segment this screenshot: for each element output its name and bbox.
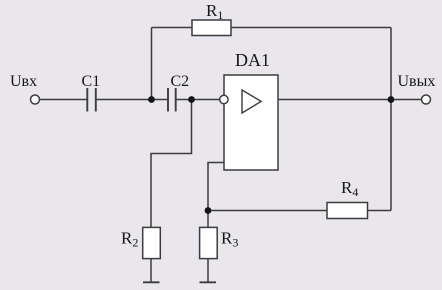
ground (R3) (200, 281, 217, 283)
svg-text:Uвых: Uвых (398, 73, 436, 90)
node junction after C2 (188, 96, 195, 103)
wire R4 horizontal run (208, 210, 327, 212)
ground (R2) (143, 281, 160, 283)
capacitor C1 (87, 88, 96, 112)
svg-text:Uвх: Uвх (10, 73, 37, 90)
resistor R3 (200, 227, 218, 258)
wire C1 to C2 (97, 99, 168, 101)
wire right rail vertical (390, 28, 392, 211)
wire op-amp lower pin (208, 163, 224, 229)
svg-text:C1: C1 (82, 73, 101, 90)
wire C2 to op-amp input (177, 99, 220, 101)
input terminal circle (31, 95, 40, 104)
wire R3 to ground (207, 259, 209, 282)
resistor R1 (192, 20, 231, 36)
resistor R4 (327, 203, 368, 219)
node junction R3/R4 (205, 207, 212, 214)
wire top left to R1 (152, 27, 193, 29)
op-amp input circle (220, 95, 228, 103)
wire junction down from C2 node (151, 100, 192, 229)
wire R4 to right rail (368, 210, 392, 212)
wire R1 to right rail (231, 27, 391, 29)
wire input to C1 (40, 99, 87, 101)
op-amp DA1 body (224, 75, 278, 170)
capacitor C2 (168, 88, 176, 112)
svg-text:DA1: DA1 (235, 50, 270, 70)
node output junction (388, 96, 395, 103)
svg-text:C2: C2 (171, 73, 190, 90)
wire feedback left vertical (151, 28, 153, 100)
wire R2 to ground (150, 259, 152, 282)
op-amp DA1 triangle (242, 90, 261, 113)
resistor R2 (143, 227, 161, 258)
node junction after C1 wire (feedback tap) (148, 96, 155, 103)
output terminal circle (422, 95, 431, 104)
wire op-amp output to terminal (278, 99, 422, 101)
